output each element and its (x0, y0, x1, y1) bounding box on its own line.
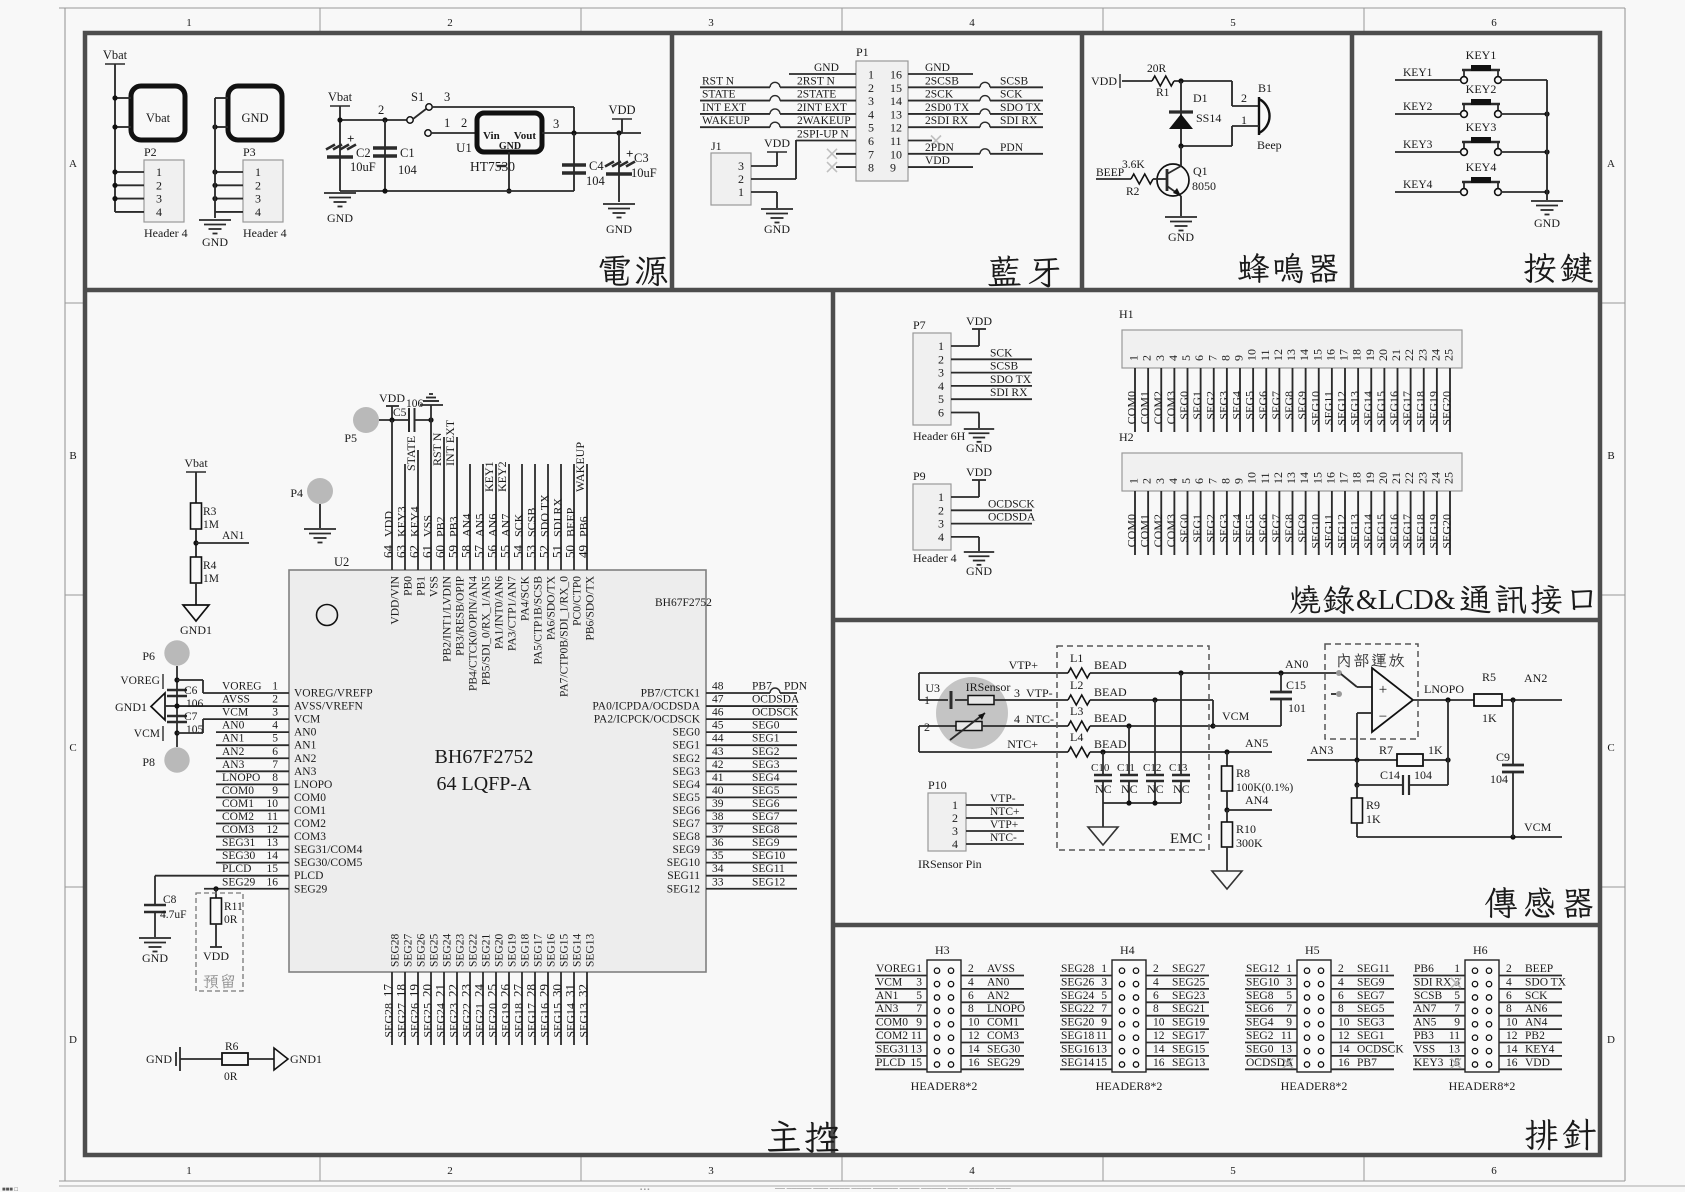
wire U2 pin 25 SEG20 (495, 972, 497, 1045)
svg-text:2: 2 (156, 178, 162, 192)
svg-text:WAKEUP: WAKEUP (573, 442, 587, 492)
svg-text:42: 42 (712, 759, 724, 771)
svg-text:AN0: AN0 (1285, 657, 1308, 671)
svg-text:GND: GND (966, 441, 992, 455)
svg-text:14: 14 (1297, 349, 1311, 361)
wire VTP+ to AN0 (1090, 672, 1339, 674)
svg-text:OCDSDA: OCDSDA (988, 512, 1036, 524)
svg-text:0R: 0R (224, 914, 238, 926)
svg-text:2: 2 (1241, 91, 1247, 105)
svg-text:C: C (1607, 742, 1614, 754)
svg-text:35: 35 (712, 850, 724, 862)
ground (keys) (1531, 200, 1563, 202)
wire U2 pin 31 SEG14 (573, 972, 575, 1045)
svg-text:SEG14: SEG14 (572, 934, 584, 967)
svg-text:PB0: PB0 (403, 576, 415, 596)
svg-text:SEG28: SEG28 (1061, 963, 1094, 975)
wire P1 pin9 VDD (908, 166, 973, 168)
wire H3 pin10 COM1 (961, 1028, 1024, 1030)
svg-text:SEG31/COM4: SEG31/COM4 (294, 844, 363, 856)
wire H5 pin9 SEG4 (1245, 1028, 1297, 1030)
svg-text:7: 7 (1205, 355, 1219, 361)
svg-text:SEG12: SEG12 (667, 883, 700, 895)
ground (C5) (420, 404, 443, 406)
svg-text:2: 2 (1140, 355, 1154, 361)
svg-text:8: 8 (868, 161, 874, 175)
svg-text:SEG9: SEG9 (1357, 976, 1385, 988)
svg-text:H2: H2 (1119, 430, 1134, 444)
svg-text:2WAKEUP: 2WAKEUP (797, 115, 851, 127)
svg-text:AN1: AN1 (222, 733, 245, 745)
svg-text:D: D (1607, 1034, 1615, 1046)
svg-text:COM3: COM3 (294, 831, 326, 843)
svg-text:GND: GND (142, 951, 168, 965)
resistor R5 1K (1474, 694, 1502, 706)
svg-text:44: 44 (712, 733, 724, 745)
svg-text:GND: GND (966, 564, 992, 578)
svg-text:SEG9: SEG9 (752, 837, 780, 849)
svg-text:P5: P5 (344, 431, 357, 445)
svg-text:11: 11 (1258, 472, 1272, 484)
svg-text:1: 1 (738, 185, 744, 199)
wire NTC+ loop (918, 726, 920, 752)
wire U2 pin 57 AN5 (482, 464, 484, 570)
svg-text:8: 8 (1153, 1003, 1159, 1015)
wire P1 pin14 2SCK (908, 100, 980, 102)
svg-text:24: 24 (1428, 349, 1442, 361)
svg-text:4: 4 (938, 530, 944, 544)
svg-text:48: 48 (712, 681, 724, 693)
svg-text:106: 106 (186, 698, 204, 710)
svg-text:GND: GND (606, 222, 632, 236)
svg-text:SEG5: SEG5 (673, 792, 701, 804)
svg-text:13: 13 (1284, 472, 1298, 484)
svg-text:2STATE: 2STATE (797, 89, 836, 101)
svg-text:AN6: AN6 (1525, 1003, 1548, 1015)
svg-text:3: 3 (255, 192, 261, 206)
svg-text:13: 13 (890, 107, 902, 121)
svg-text:SEG28: SEG28 (382, 1003, 396, 1038)
wire U2 pin 6 AN2 (216, 757, 289, 759)
svg-text:SEG5: SEG5 (1243, 391, 1257, 420)
svg-text:4: 4 (952, 837, 958, 851)
svg-text:P4: P4 (290, 486, 303, 500)
svg-text:SEG14: SEG14 (1361, 514, 1375, 549)
svg-text:2SDI RX: 2SDI RX (925, 115, 969, 127)
svg-text:7: 7 (1286, 1003, 1292, 1015)
wire H3 pin9 COM0 (875, 1028, 927, 1030)
testpoint P8 (164, 747, 189, 772)
wire P1 pin15 2SCSB (908, 86, 980, 88)
svg-text:1: 1 (938, 490, 944, 504)
svg-text:COM0: COM0 (222, 785, 254, 797)
svg-text:NC: NC (1147, 782, 1164, 796)
wire H2 pin11 SEG6 (1265, 491, 1267, 555)
wire H6 pin10 AN4 (1499, 1028, 1562, 1030)
wire H3 pin13 SEG31 (875, 1055, 927, 1057)
svg-text:VCM: VCM (134, 728, 160, 740)
wire H2 pin1 COM0 (1134, 491, 1136, 555)
svg-text:AN2: AN2 (987, 990, 1010, 1002)
svg-text:SEG14: SEG14 (1061, 1057, 1094, 1069)
svg-text:12: 12 (267, 824, 279, 836)
wire H1 pin7 SEG2 (1213, 368, 1215, 432)
svg-text:COM3: COM3 (987, 1030, 1019, 1042)
svg-text:COM3: COM3 (1164, 391, 1178, 424)
svg-text:SEG16: SEG16 (546, 934, 558, 967)
svg-text:PA4/SCK: PA4/SCK (520, 575, 532, 621)
wire U2 pin 59 PB3 (456, 437, 458, 570)
svg-text:VDD: VDD (379, 391, 405, 405)
svg-text:11: 11 (1449, 1030, 1460, 1042)
wire H1 pin25 SEG20 (1449, 368, 1451, 432)
wire S1 pin3 bypass (432, 106, 574, 108)
svg-text:SEG5: SEG5 (752, 785, 780, 797)
svg-text:C3: C3 (634, 151, 649, 165)
wire H1 pin6 SEG1 (1200, 368, 1202, 432)
svg-text:SEG0: SEG0 (673, 727, 701, 739)
svg-text:GND1: GND1 (115, 700, 147, 714)
svg-text:R4: R4 (203, 560, 217, 572)
resistor R4 1M (191, 557, 202, 583)
svg-text:VDD: VDD (966, 314, 992, 328)
svg-text:C8: C8 (163, 894, 177, 906)
transistor Q1 8050 (1157, 164, 1189, 196)
wire U2 pin 19 SEG26 (417, 972, 419, 1045)
svg-text:VDD: VDD (764, 136, 790, 150)
wire P1 pin6 2SPI-UP_N (796, 140, 856, 142)
svg-text:16: 16 (1323, 349, 1337, 361)
svg-text:SEG19: SEG19 (1426, 391, 1440, 426)
resistor R1 20R (1122, 80, 1152, 82)
wire H1 pin13 SEG8 (1292, 368, 1294, 432)
wire H2 pin12 SEG7 (1278, 491, 1280, 555)
svg-text:AN2: AN2 (294, 753, 317, 765)
svg-text:VTP-: VTP- (990, 793, 1016, 805)
svg-text:BEAD: BEAD (1094, 658, 1127, 672)
wire P10 pin1 VTP- (966, 804, 1024, 806)
wire U2 pin 15 PLCD (155, 875, 289, 877)
wire U2 pin 16 SEG29 (204, 888, 289, 890)
svg-text:SEG29: SEG29 (294, 883, 327, 895)
svg-text:VCM: VCM (1222, 709, 1250, 723)
wire H6 pin14 KEY4 (1499, 1055, 1562, 1057)
wire H6 pin3 SDI RX (1413, 988, 1465, 990)
svg-text:SEG15: SEG15 (1374, 514, 1388, 549)
svg-text:SEG0: SEG0 (1177, 514, 1191, 543)
svg-text:COM1: COM1 (294, 805, 326, 817)
svg-text:AN3: AN3 (294, 766, 317, 778)
svg-text:11: 11 (1096, 1030, 1107, 1042)
svg-text:5: 5 (938, 392, 944, 406)
wire P9 pin2 OCDSCK (951, 509, 1032, 511)
svg-text:13: 13 (267, 837, 279, 849)
svg-text:INT EXT: INT EXT (702, 102, 746, 114)
svg-text:L4: L4 (1070, 730, 1083, 744)
wire H3 pin12 COM3 (961, 1042, 1024, 1044)
svg-text:Q1: Q1 (1193, 164, 1208, 178)
svg-text:COM0: COM0 (1125, 514, 1139, 547)
svg-text:SEG10: SEG10 (1308, 514, 1322, 549)
wire H4 pin16 SEG13 (1146, 1068, 1209, 1070)
svg-text:SEG6: SEG6 (1256, 514, 1270, 543)
svg-text:SEG29: SEG29 (987, 1057, 1020, 1069)
svg-text:R8: R8 (1236, 766, 1250, 780)
testpoint P6 (164, 640, 189, 665)
wire H3 pin11 COM2 (875, 1042, 927, 1044)
svg-text:SEG4: SEG4 (673, 779, 701, 791)
wire U2 pin 21 SEG24 (443, 972, 445, 1045)
svg-text:L1: L1 (1070, 651, 1083, 665)
svg-text:SEG14: SEG14 (1361, 391, 1375, 426)
svg-text:Vbat: Vbat (328, 90, 353, 104)
wire U2 pin 62 KEY4 (417, 450, 419, 570)
svg-text:COM0: COM0 (876, 1017, 908, 1029)
wire H3 pin1 VOREG (875, 975, 927, 977)
svg-text:SEG15: SEG15 (1172, 1043, 1205, 1055)
svg-text:HEADER8*2: HEADER8*2 (1096, 1079, 1163, 1093)
svg-text:COM2: COM2 (294, 818, 326, 830)
svg-text:2: 2 (968, 963, 974, 975)
svg-text:GND: GND (241, 111, 268, 125)
svg-text:SEG24: SEG24 (434, 1003, 448, 1038)
wire H6 pin6 SCK (1499, 1001, 1562, 1003)
svg-text:C: C (69, 742, 76, 754)
svg-text:+: + (626, 146, 633, 161)
svg-text:3: 3 (708, 17, 714, 29)
wire H3 pin5 AN1 (875, 1001, 927, 1003)
svg-text:PA3/CTP1/AN7: PA3/CTP1/AN7 (507, 576, 519, 651)
wire H5 pin7 SEG6 (1245, 1015, 1297, 1017)
svg-text:2: 2 (1153, 963, 1159, 975)
wire H1 pin4 COM3 (1173, 368, 1175, 432)
wire P1 pin12 2SDI RX (908, 126, 980, 128)
svg-text:104: 104 (398, 163, 418, 177)
svg-text:SEG9: SEG9 (673, 844, 701, 856)
svg-text:U1: U1 (456, 140, 472, 155)
svg-text:P6: P6 (142, 649, 155, 663)
svg-text:SEG21: SEG21 (1172, 1003, 1205, 1015)
wire H2 pin8 SEG3 (1226, 491, 1228, 555)
svg-text:VTP-: VTP- (1026, 686, 1053, 700)
wire H1 pin18 SEG13 (1357, 368, 1359, 432)
wire U2 pin 55 AN7 (508, 464, 510, 570)
svg-text:VOREG: VOREG (222, 681, 262, 693)
svg-text:16: 16 (1506, 1057, 1518, 1069)
svg-text:SEG20: SEG20 (1440, 391, 1454, 426)
wire Vbat to S1 (339, 106, 341, 191)
svg-text:11: 11 (911, 1030, 922, 1042)
svg-text:25: 25 (1442, 472, 1456, 484)
wire U2 pin 32 SEG13 (586, 972, 588, 1045)
svg-text:SEG9: SEG9 (1295, 391, 1309, 420)
wire H2 pin18 SEG13 (1357, 491, 1359, 555)
svg-text:R5: R5 (1482, 670, 1496, 684)
svg-text:16: 16 (267, 876, 279, 888)
capacitor C7 105 (167, 715, 187, 718)
svg-text:2: 2 (1338, 963, 1344, 975)
svg-text:2: 2 (461, 116, 467, 130)
wire LNOPO output (1413, 699, 1474, 701)
svg-text:C11: C11 (1117, 762, 1135, 774)
svg-text:SEG17: SEG17 (525, 1003, 539, 1038)
wire J1 pin2 to P1 pin6 (751, 178, 796, 180)
svg-text:GND: GND (925, 62, 950, 74)
svg-text:SEG12: SEG12 (1246, 963, 1279, 975)
svg-text:6: 6 (1153, 990, 1159, 1002)
svg-text:45: 45 (712, 720, 724, 732)
svg-text:SEG10: SEG10 (1308, 391, 1322, 426)
svg-text:D1: D1 (1193, 91, 1208, 105)
svg-text:14: 14 (890, 94, 902, 108)
svg-text:14: 14 (1338, 1043, 1350, 1055)
svg-text:J1: J1 (711, 139, 722, 153)
svg-text:SEG27: SEG27 (1172, 963, 1205, 975)
svg-text:B: B (1607, 450, 1614, 462)
svg-text:24: 24 (1428, 472, 1442, 484)
wire H5 pin14 OCDSCK (1331, 1055, 1394, 1057)
svg-text:AN4: AN4 (1245, 793, 1268, 807)
svg-text:KEY2: KEY2 (495, 461, 509, 492)
svg-text:4: 4 (968, 976, 974, 988)
svg-text:SEG31: SEG31 (222, 837, 255, 849)
svg-text:COM3: COM3 (222, 824, 254, 836)
wire H1 pin2 COM1 (1147, 368, 1149, 432)
svg-text:D: D (69, 1034, 77, 1046)
svg-text:GND: GND (1168, 230, 1194, 244)
svg-text:1: 1 (1454, 963, 1460, 975)
wire U2 pin 1 VOREG (203, 692, 289, 694)
svg-text:A: A (1607, 158, 1615, 170)
svg-text:1M: 1M (203, 573, 219, 585)
capacitor C14 104 (1356, 760, 1358, 785)
capacitor C4 104 (573, 133, 575, 191)
svg-text:VSS: VSS (429, 576, 441, 597)
resistor R7 1K (1397, 754, 1423, 766)
svg-text:BH67F2752: BH67F2752 (435, 746, 534, 768)
svg-text:2: 2 (1506, 963, 1512, 975)
svg-text:10: 10 (1338, 1017, 1350, 1029)
wire H2 pin9 SEG4 (1239, 491, 1241, 555)
wire U2 pin 29 SEG16 (547, 972, 549, 1045)
svg-text:LNOPO: LNOPO (987, 1003, 1025, 1015)
svg-text:NC: NC (1095, 782, 1112, 796)
svg-text:4: 4 (1338, 976, 1344, 988)
svg-text:SEG6: SEG6 (673, 805, 701, 817)
svg-text:PB2/INT1/LVDIN: PB2/INT1/LVDIN (442, 575, 454, 662)
svg-text:B1: B1 (1258, 81, 1272, 95)
wire U2 pin 17 SEG28 (391, 972, 393, 1045)
wire EMC cap rail (1103, 802, 1181, 804)
wire H1 pin11 SEG6 (1265, 368, 1267, 432)
svg-text:15: 15 (1310, 472, 1324, 484)
svg-text:SEG13: SEG13 (1348, 391, 1362, 426)
svg-text:4: 4 (255, 205, 261, 219)
svg-text:COM2: COM2 (1151, 391, 1165, 424)
svg-text:0R: 0R (224, 1071, 238, 1083)
svg-text:2: 2 (938, 352, 944, 366)
svg-text:8050: 8050 (1192, 179, 1216, 193)
svg-text:1K: 1K (1482, 711, 1497, 725)
wire H2 pin2 COM1 (1147, 491, 1149, 555)
ground GND below P3 column (199, 219, 231, 221)
wire GND column (214, 98, 216, 218)
wire H2 pin15 SEG10 (1318, 491, 1320, 555)
wire U2 pin 2 AVSS (177, 705, 289, 707)
svg-text:104: 104 (586, 174, 606, 188)
svg-text:AN3: AN3 (876, 1003, 899, 1015)
capacitor C13 NC (1180, 673, 1182, 775)
svg-text:GND: GND (814, 62, 839, 74)
svg-text:VOREG/VREFP: VOREG/VREFP (294, 688, 373, 700)
svg-text:NTC-: NTC- (990, 832, 1017, 844)
svg-text:20: 20 (1376, 472, 1390, 484)
svg-text:PB6: PB6 (1414, 963, 1434, 975)
svg-text:14: 14 (1297, 472, 1311, 484)
svg-text:SEG18: SEG18 (512, 1003, 526, 1038)
wire H6 pin13 VSS (1413, 1055, 1465, 1057)
svg-text:7: 7 (1101, 1003, 1107, 1015)
wire H2 pin10 SEG5 (1252, 491, 1254, 555)
svg-text:SEG10: SEG10 (1246, 976, 1279, 988)
svg-text:2INT EXT: 2INT EXT (797, 102, 847, 114)
svg-text:GND: GND (764, 222, 790, 236)
capacitor C2 10uF (326, 145, 335, 150)
svg-text:SEG1: SEG1 (1190, 514, 1204, 543)
svg-text:4: 4 (938, 379, 944, 393)
wire U2 pin 12 COM3 (216, 836, 289, 838)
svg-text:8: 8 (968, 1003, 974, 1015)
wire H3 pin15 PLCD (875, 1068, 927, 1070)
svg-text:SEG21: SEG21 (481, 934, 493, 967)
svg-text:SEG0: SEG0 (1246, 1043, 1274, 1055)
capacitor C9 104 (1512, 700, 1514, 765)
svg-text:SDI RX: SDI RX (1414, 976, 1452, 988)
svg-text:L2: L2 (1070, 678, 1083, 692)
svg-text:C7: C7 (184, 711, 198, 723)
svg-text:SCSB: SCSB (525, 508, 539, 537)
node AN1 (193, 540, 198, 545)
wire H1 pin24 SEG19 (1436, 368, 1438, 432)
svg-text:SCK: SCK (990, 347, 1013, 359)
wire J1 pin3 to VDD (751, 165, 777, 167)
svg-text:AN5: AN5 (1414, 1017, 1437, 1029)
svg-text:5: 5 (1454, 990, 1460, 1002)
svg-text:BEEP: BEEP (564, 507, 578, 537)
svg-text:C9: C9 (1496, 750, 1510, 764)
svg-text:9: 9 (1232, 478, 1246, 484)
svg-text:47: 47 (712, 694, 724, 706)
svg-text:9: 9 (1454, 1017, 1460, 1029)
svg-text:KEY4: KEY4 (1525, 1043, 1555, 1055)
svg-text:SEG2: SEG2 (752, 746, 780, 758)
svg-text:11: 11 (267, 811, 278, 823)
wire H6 pin9 AN5 (1413, 1028, 1465, 1030)
svg-text:10: 10 (267, 798, 279, 810)
svg-text:1: 1 (444, 116, 450, 130)
svg-text:3: 3 (1153, 355, 1167, 361)
wire H4 pin2 SEG27 (1146, 975, 1209, 977)
wire H5 pin10 SEG3 (1331, 1028, 1394, 1030)
svg-text:PB7: PB7 (752, 681, 772, 693)
svg-text:Vbat: Vbat (103, 48, 128, 62)
svg-text:PA7/CTP0B/SDI_1/RX_0: PA7/CTP0B/SDI_1/RX_0 (559, 576, 571, 697)
svg-text:A: A (69, 158, 77, 170)
wire to Vbat block (115, 97, 131, 99)
svg-text:LNOPO: LNOPO (222, 772, 260, 784)
svg-text:14: 14 (1153, 1043, 1165, 1055)
svg-text:BEEP: BEEP (1096, 167, 1124, 179)
